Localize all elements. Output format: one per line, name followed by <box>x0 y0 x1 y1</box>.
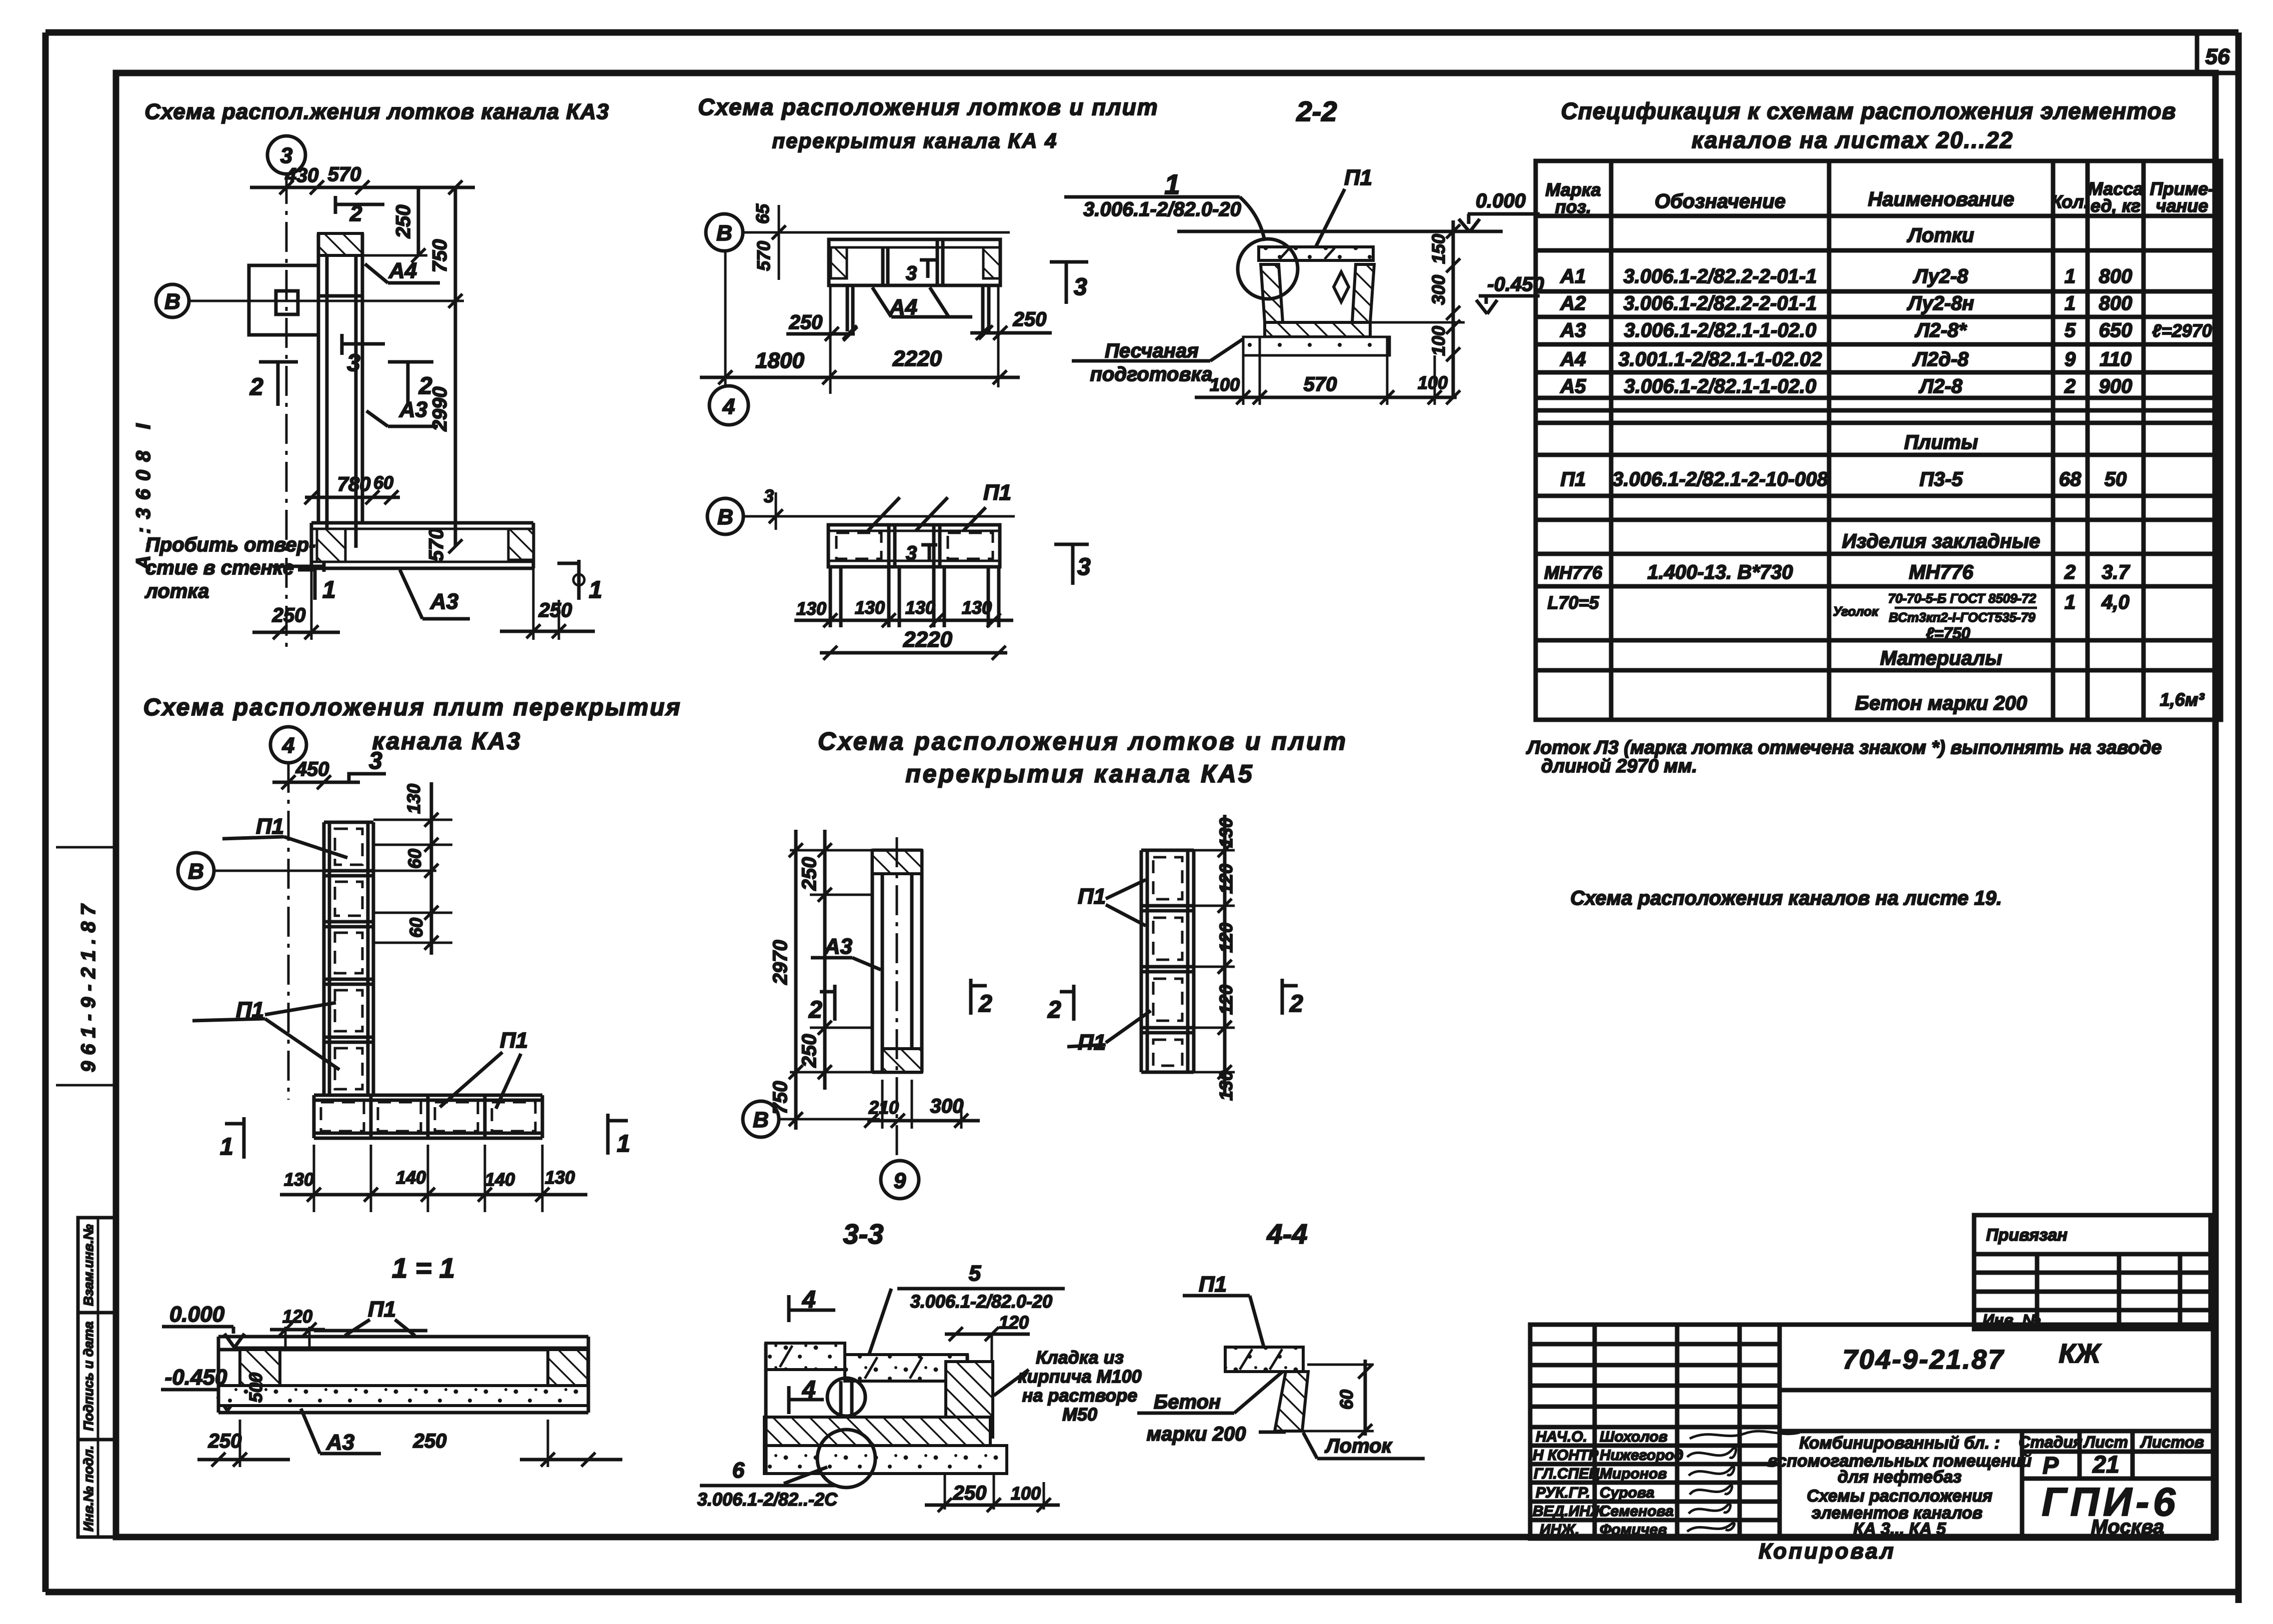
svg-text:140: 140 <box>485 1169 515 1190</box>
svg-text:А1: А1 <box>1560 265 1586 287</box>
svg-text:3: 3 <box>1074 274 1087 300</box>
svg-text:60: 60 <box>373 472 393 493</box>
svg-text:Лу2-8н: Лу2-8н <box>1907 292 1974 314</box>
svg-text:570: 570 <box>425 528 447 562</box>
svg-text:4: 4 <box>802 1377 816 1403</box>
svg-text:3.7: 3.7 <box>2102 561 2130 583</box>
svg-text:110: 110 <box>2100 348 2132 370</box>
svg-text:Пробить отвер-: Пробить отвер- <box>145 534 315 556</box>
svg-text:Обозначение: Обозначение <box>1655 190 1786 212</box>
svg-text:570: 570 <box>753 241 774 271</box>
svg-text:570: 570 <box>1304 373 1337 395</box>
svg-text:подготовка: подготовка <box>1090 363 1212 385</box>
svg-text:3.006.1-2/82.1-2-10-008: 3.006.1-2/82.1-2-10-008 <box>1612 468 1828 490</box>
svg-text:3.006.1-2/82.1-1-02.0: 3.006.1-2/82.1-1-02.0 <box>1624 375 1817 397</box>
svg-text:65: 65 <box>752 203 773 224</box>
svg-text:П1: П1 <box>1078 884 1106 909</box>
svg-text:9: 9 <box>894 1169 906 1193</box>
svg-text:5: 5 <box>2065 319 2076 341</box>
svg-text:1 = 1: 1 = 1 <box>392 1252 455 1284</box>
svg-text:250: 250 <box>392 205 414 239</box>
svg-text:2: 2 <box>1289 991 1303 1017</box>
svg-text:Лист: Лист <box>2083 1433 2128 1451</box>
svg-text:длиной 2970 мм.: длиной 2970 мм. <box>1541 756 1697 777</box>
svg-text:140: 140 <box>396 1167 426 1188</box>
svg-text:Инв.№ подл.: Инв.№ подл. <box>81 1446 96 1532</box>
svg-text:Привязан: Привязан <box>1986 1226 2068 1245</box>
svg-text:ℓ=2970: ℓ=2970 <box>2152 320 2212 341</box>
svg-text:2: 2 <box>808 997 822 1023</box>
svg-text:П1: П1 <box>983 480 1011 505</box>
svg-text:на растворе: на растворе <box>1022 1385 1138 1406</box>
svg-text:для нефтебаз: для нефтебаз <box>1838 1468 1962 1487</box>
svg-text:9: 9 <box>2065 348 2076 370</box>
svg-text:130: 130 <box>284 1169 314 1190</box>
svg-text:А4: А4 <box>1560 348 1586 370</box>
svg-text:ВЕД.ИНЖ: ВЕД.ИНЖ <box>1533 1503 1605 1520</box>
svg-text:Спецификация к схемам располож: Спецификация к схемам расположения элеме… <box>1561 98 2177 124</box>
svg-text:П1: П1 <box>1078 1030 1106 1055</box>
svg-text:6: 6 <box>732 1458 745 1483</box>
svg-text:21: 21 <box>2092 1452 2119 1478</box>
svg-text:130: 130 <box>905 597 935 618</box>
svg-text:П1: П1 <box>1560 468 1586 490</box>
svg-text:лотка: лотка <box>144 580 209 602</box>
svg-text:300: 300 <box>1428 275 1449 305</box>
svg-text:кирпича М100: кирпича М100 <box>1018 1366 1141 1387</box>
svg-text:750: 750 <box>769 1081 791 1115</box>
svg-text:120: 120 <box>1216 985 1236 1015</box>
svg-text:А3: А3 <box>399 397 427 422</box>
svg-text:П1: П1 <box>500 1028 528 1053</box>
svg-text:1: 1 <box>2065 292 2076 314</box>
svg-text:650: 650 <box>2099 319 2133 341</box>
svg-text:3: 3 <box>1077 554 1091 580</box>
svg-text:Схема расположения лотков и пл: Схема расположения лотков и плит <box>818 727 1348 755</box>
svg-text:А3: А3 <box>1560 319 1586 341</box>
svg-text:130: 130 <box>962 597 992 618</box>
svg-text:чание: чание <box>2156 195 2209 216</box>
svg-text:780: 780 <box>337 473 371 495</box>
svg-text:250: 250 <box>272 604 306 626</box>
svg-text:Песчаная: Песчаная <box>1105 340 1199 362</box>
svg-text:П1: П1 <box>1199 1272 1227 1297</box>
svg-text:Кол.: Кол. <box>2051 191 2089 212</box>
svg-text:250: 250 <box>798 857 820 891</box>
svg-text:3.006.1-2/82.0-20: 3.006.1-2/82.0-20 <box>1083 198 1241 220</box>
svg-text:Схема расположения каналов на: Схема расположения каналов на листе 19. <box>1570 887 2002 909</box>
svg-text:250: 250 <box>953 1482 987 1504</box>
svg-text:3: 3 <box>764 486 774 506</box>
svg-text:120: 120 <box>282 1306 312 1327</box>
svg-text:250: 250 <box>798 1034 820 1068</box>
svg-text:Наименование: Наименование <box>1868 188 2015 210</box>
svg-text:750: 750 <box>429 239 451 273</box>
svg-text:Семенова: Семенова <box>1600 1503 1674 1520</box>
svg-text:А3: А3 <box>824 934 852 959</box>
svg-text:3: 3 <box>906 542 917 564</box>
svg-text:100: 100 <box>1210 374 1240 395</box>
svg-text:П1: П1 <box>256 814 284 839</box>
svg-text:Уголок: Уголок <box>1833 604 1879 619</box>
svg-text:56: 56 <box>2206 44 2230 69</box>
svg-text:300: 300 <box>930 1095 964 1117</box>
svg-text:Схема расположения плит перекр: Схема расположения плит перекрытия <box>143 694 681 721</box>
svg-text:250: 250 <box>208 1430 242 1452</box>
svg-text:перекрытия канала КА5: перекрытия канала КА5 <box>905 760 1254 788</box>
svg-text:В: В <box>717 505 733 529</box>
svg-text:2-2: 2-2 <box>1296 95 1337 127</box>
svg-text:50: 50 <box>2105 468 2127 490</box>
svg-text:Л2-8*: Л2-8* <box>1915 319 1968 341</box>
svg-text:4: 4 <box>722 394 735 419</box>
svg-text:3.006.1-2/82.2-2-01-1: 3.006.1-2/82.2-2-01-1 <box>1624 265 1817 287</box>
svg-text:П3-5: П3-5 <box>1920 468 1963 490</box>
svg-text:Москва: Москва <box>2091 1516 2164 1538</box>
svg-text:1: 1 <box>322 577 336 603</box>
svg-text:3.006.1-2/82..-2С: 3.006.1-2/82..-2С <box>697 1489 838 1510</box>
svg-text:130: 130 <box>796 598 826 619</box>
svg-text:2: 2 <box>249 374 263 400</box>
svg-text:3.006.1-2/82.1-1-02.0: 3.006.1-2/82.1-1-02.0 <box>1624 319 1817 341</box>
svg-text:3: 3 <box>347 350 360 376</box>
svg-text:2: 2 <box>349 201 362 226</box>
svg-text:ИНЖ.: ИНЖ. <box>1540 1522 1579 1538</box>
svg-text:68: 68 <box>2059 468 2082 490</box>
svg-text:2220: 2220 <box>892 346 942 371</box>
svg-text:1800: 1800 <box>755 348 804 373</box>
svg-text:Л2д-8: Л2д-8 <box>1912 348 1969 370</box>
svg-text:3-3: 3-3 <box>843 1218 884 1250</box>
svg-text:Миронов: Миронов <box>1600 1466 1667 1482</box>
svg-text:0.000: 0.000 <box>169 1302 225 1327</box>
svg-text:1: 1 <box>220 1134 233 1160</box>
svg-text:МН776: МН776 <box>1544 562 1603 583</box>
svg-text:1,6м³: 1,6м³ <box>2160 689 2205 710</box>
svg-text:А3: А3 <box>326 1430 354 1455</box>
svg-text:2: 2 <box>1047 997 1061 1023</box>
svg-text:Материалы: Материалы <box>1880 647 2002 669</box>
svg-text:НАЧ.О.: НАЧ.О. <box>1536 1429 1587 1445</box>
svg-text:2: 2 <box>978 991 992 1017</box>
svg-text:60: 60 <box>404 849 425 869</box>
svg-text:марки 200: марки 200 <box>1147 1423 1246 1445</box>
svg-text:130: 130 <box>1216 818 1236 848</box>
svg-text:60: 60 <box>1336 1390 1357 1410</box>
svg-text:2: 2 <box>418 373 432 399</box>
svg-text:900: 900 <box>2099 375 2133 397</box>
svg-text:4-4: 4-4 <box>1267 1218 1308 1250</box>
svg-text:Копировал: Копировал <box>1759 1539 1896 1564</box>
svg-text:1: 1 <box>589 577 602 603</box>
svg-text:120: 120 <box>1216 923 1236 953</box>
svg-text:570: 570 <box>328 163 361 185</box>
svg-text:Н КОНТР: Н КОНТР <box>1533 1447 1599 1464</box>
svg-text:4,0: 4,0 <box>2101 591 2130 613</box>
svg-text:Фомичев: Фомичев <box>1600 1522 1667 1538</box>
svg-text:Схема расположения лотков и пл: Схема расположения лотков и плит <box>698 94 1158 120</box>
svg-text:Нижегород: Нижегород <box>1600 1447 1684 1464</box>
svg-text:1: 1 <box>2065 591 2076 613</box>
svg-text:Листов: Листов <box>2140 1433 2204 1451</box>
svg-text:70-70-5-Б ГОСТ 8509-72: 70-70-5-Б ГОСТ 8509-72 <box>1888 591 2037 606</box>
svg-text:210: 210 <box>868 1097 899 1118</box>
svg-text:250: 250 <box>1013 308 1047 330</box>
svg-text:3.006.1-2/82.0-20: 3.006.1-2/82.0-20 <box>910 1291 1052 1312</box>
svg-text:120: 120 <box>999 1312 1029 1333</box>
svg-text:КА 3... КА 5: КА 3... КА 5 <box>1853 1520 1946 1539</box>
svg-text:130: 130 <box>855 597 885 618</box>
svg-text:3: 3 <box>906 262 917 284</box>
svg-text:канала КА3: канала КА3 <box>372 728 522 755</box>
svg-text:В: В <box>753 1108 769 1132</box>
svg-text:250: 250 <box>538 599 572 621</box>
svg-text:4: 4 <box>282 733 294 758</box>
svg-text:2220: 2220 <box>903 627 952 652</box>
svg-text:500: 500 <box>245 1373 266 1403</box>
svg-text:130: 130 <box>403 784 424 814</box>
svg-text:120: 120 <box>1216 864 1236 894</box>
svg-text:Кладка из: Кладка из <box>1036 1347 1124 1368</box>
svg-text:4: 4 <box>802 1287 816 1313</box>
svg-text:Подпись и дата: Подпись и дата <box>81 1322 96 1431</box>
svg-text:800: 800 <box>2099 265 2133 287</box>
svg-text:Изделия закладные: Изделия закладные <box>1842 530 2040 552</box>
svg-text:1: 1 <box>617 1131 630 1157</box>
svg-text:А5: А5 <box>1560 375 1586 397</box>
svg-text:130: 130 <box>545 1167 575 1188</box>
svg-text:1.400-13. В*730: 1.400-13. В*730 <box>1647 561 1793 583</box>
svg-text:МН776: МН776 <box>1909 561 1974 583</box>
svg-text:ГЛ.СПЕЦ: ГЛ.СПЕЦ <box>1534 1466 1600 1482</box>
svg-text:3: 3 <box>369 748 382 774</box>
svg-text:КЖ: КЖ <box>2059 1339 2102 1369</box>
svg-text:стие в стенке: стие в стенке <box>145 557 294 579</box>
svg-text:ВСт3кп2-I-ГОСТ535-79: ВСт3кп2-I-ГОСТ535-79 <box>1889 610 2036 625</box>
svg-text:0.000: 0.000 <box>1476 190 1526 212</box>
svg-text:Лоток Л3 (марка лотка отмечена: Лоток Л3 (марка лотка отмечена знаком *)… <box>1526 737 2162 758</box>
svg-text:Комбинированный бл. :: Комбинированный бл. : <box>1799 1434 2000 1453</box>
svg-text:А2: А2 <box>1560 292 1586 314</box>
svg-text:-0.450: -0.450 <box>1487 273 1544 295</box>
svg-text:150: 150 <box>1428 234 1449 264</box>
svg-text:перекрытия канала КА 4: перекрытия канала КА 4 <box>772 129 1058 152</box>
svg-text:РУК.ГР.: РУК.ГР. <box>1536 1485 1590 1501</box>
svg-text:5: 5 <box>969 1261 981 1286</box>
svg-text:Схемы расположения: Схемы расположения <box>1807 1487 1993 1506</box>
svg-text:Сурова: Сурова <box>1600 1485 1654 1501</box>
svg-text:961-9-21.87: 961-9-21.87 <box>77 898 99 1072</box>
svg-text:1: 1 <box>2065 265 2076 287</box>
svg-text:А3: А3 <box>430 589 458 614</box>
svg-text:704-9-21.87: 704-9-21.87 <box>1843 1345 2005 1375</box>
svg-text:2: 2 <box>2064 561 2076 583</box>
svg-text:ℓ=750: ℓ=750 <box>1926 624 1971 642</box>
svg-text:Схема распол.жения лотков кана: Схема распол.жения лотков канала КА3 <box>144 99 609 124</box>
svg-text:100: 100 <box>1011 1483 1041 1504</box>
svg-text:Р: Р <box>2043 1453 2059 1479</box>
svg-text:В: В <box>716 221 732 245</box>
svg-text:450: 450 <box>295 758 329 780</box>
svg-text:поз.: поз. <box>1555 196 1591 217</box>
svg-text:Бетон марки 200: Бетон марки 200 <box>1855 692 2027 714</box>
svg-text:100: 100 <box>1428 326 1449 356</box>
svg-text:100: 100 <box>1418 372 1448 393</box>
svg-text:ед, кг: ед, кг <box>2091 195 2141 216</box>
svg-text:Лоток: Лоток <box>1324 1435 1392 1457</box>
svg-text:3.006.1-2/82.2-2-01-1: 3.006.1-2/82.2-2-01-1 <box>1624 292 1817 314</box>
svg-text:L70=5: L70=5 <box>1547 592 1599 613</box>
svg-text:250: 250 <box>789 311 823 333</box>
svg-text:Бетон: Бетон <box>1154 1391 1221 1413</box>
svg-text:Шохолов: Шохолов <box>1600 1429 1668 1445</box>
svg-text:Плиты: Плиты <box>1904 431 1978 453</box>
svg-text:П1: П1 <box>1344 165 1372 190</box>
svg-text:130: 130 <box>1216 1071 1236 1101</box>
svg-text:Лу2-8: Лу2-8 <box>1913 265 1969 287</box>
svg-text:Л2-8: Л2-8 <box>1918 375 1963 397</box>
svg-text:П1: П1 <box>368 1297 396 1322</box>
svg-text:Лотки: Лотки <box>1907 224 1974 246</box>
svg-text:В: В <box>164 289 180 314</box>
svg-text:В: В <box>188 859 204 884</box>
svg-text:каналов на листах 20...22: каналов на листах 20...22 <box>1692 127 2014 153</box>
svg-text:М50: М50 <box>1062 1404 1097 1425</box>
svg-text:Взам.инв.№: Взам.инв.№ <box>81 1224 96 1306</box>
svg-text:800: 800 <box>2099 292 2133 314</box>
svg-text:250: 250 <box>413 1430 447 1452</box>
svg-text:2970: 2970 <box>769 940 791 985</box>
svg-text:3.001.1-2/82.1-1-02.02: 3.001.1-2/82.1-1-02.02 <box>1619 348 1822 370</box>
svg-text:60: 60 <box>406 918 426 938</box>
svg-text:Стадия: Стадия <box>2019 1433 2083 1451</box>
svg-text:430: 430 <box>285 164 319 186</box>
svg-text:2: 2 <box>2064 375 2076 397</box>
